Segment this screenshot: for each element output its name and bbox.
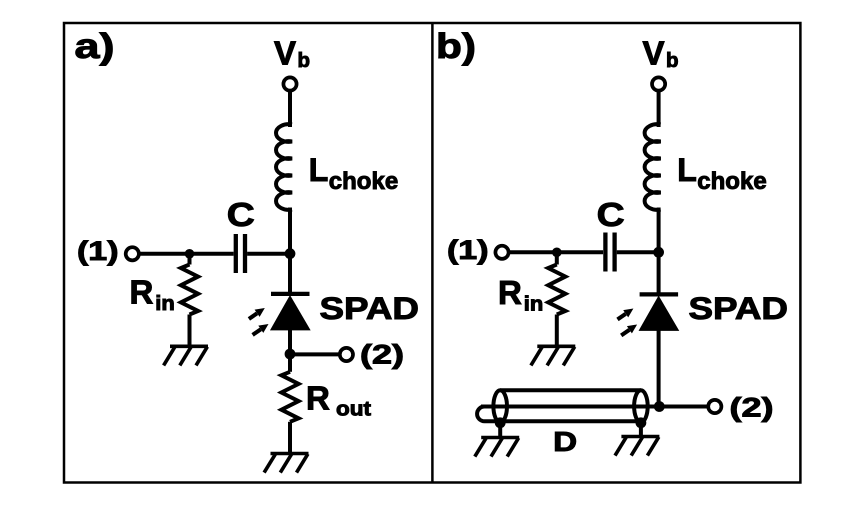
panel divider <box>431 23 434 483</box>
wire inductor to node A (b) <box>657 208 661 253</box>
svg-text:b): b) <box>436 27 476 66</box>
junction dot right shield/ground (b) <box>636 417 647 428</box>
delay line D center conductor (b) <box>481 405 708 409</box>
wire node A to SPAD (a) <box>288 254 292 296</box>
svg-text:C: C <box>227 197 255 234</box>
terminal Vb (a) <box>283 77 296 90</box>
svg-text:L: L <box>677 152 697 188</box>
delay line D left pigtail (b) <box>477 407 641 422</box>
junction dot (1)/R_in (b) <box>552 248 562 258</box>
wire resistor to ground (a) <box>188 315 192 347</box>
resistor R_out (a) <box>281 372 298 422</box>
terminal (1) (a) <box>126 247 139 260</box>
wire (1) to capacitor (a) <box>139 252 234 256</box>
wire junction to resistor (b) <box>555 252 559 264</box>
inductor L_choke (b) <box>645 124 661 210</box>
ground delay line right (b) <box>615 437 659 456</box>
outer frame <box>64 23 800 483</box>
photon arrow 1 (b) <box>618 309 634 320</box>
wire R_out to ground (a) <box>288 422 292 454</box>
wire (1) to capacitor (b) <box>509 250 603 254</box>
ground R_out (a) <box>264 454 308 473</box>
svg-text:SPAD: SPAD <box>689 290 789 326</box>
wire node 2 to terminal (2) (a) <box>290 352 340 356</box>
wire inductor to node A (a) <box>288 208 292 254</box>
photodiode SPAD (a) triangle <box>271 296 310 330</box>
photodiode SPAD (b) cathode bar <box>640 292 679 296</box>
svg-text:D: D <box>553 426 577 457</box>
svg-text:in: in <box>155 293 175 315</box>
wire node A to SPAD (b) <box>657 252 661 296</box>
wire capacitor to node A (a) <box>247 252 290 256</box>
svg-text:choke: choke <box>329 168 398 195</box>
svg-text:L: L <box>309 152 329 188</box>
wire Vb to inductor (b) <box>657 91 661 127</box>
svg-text:C: C <box>597 197 625 234</box>
svg-text:(1): (1) <box>77 236 119 266</box>
wire Vb to inductor (a) <box>288 91 292 127</box>
svg-text:R: R <box>306 380 330 417</box>
svg-text:b: b <box>666 49 679 72</box>
wire SPAD to node 2 (a) <box>288 330 292 354</box>
capacitor C (b) <box>605 233 614 272</box>
svg-text:out: out <box>336 398 371 421</box>
svg-text:SPAD: SPAD <box>320 290 420 326</box>
node A junction dot (a) <box>285 248 296 259</box>
node A junction dot (b) <box>653 247 664 258</box>
svg-text:in: in <box>524 294 544 316</box>
junction dot node 2 (b) <box>654 401 665 412</box>
svg-text:b: b <box>298 49 311 72</box>
junction dot (1)/R_in (a) <box>185 249 195 259</box>
resistor R_in (b) <box>548 265 565 315</box>
svg-text:V: V <box>274 35 296 72</box>
terminal Vb (b) <box>652 77 665 90</box>
photon arrow 2 (a) <box>253 324 269 335</box>
svg-text:R: R <box>130 274 154 311</box>
inductor L_choke (a) <box>276 124 292 210</box>
wire SPAD to delay line node (b) <box>657 330 661 406</box>
wire node 2 to R_out (a) <box>288 354 292 372</box>
ground R_in (b) <box>531 346 575 365</box>
photodiode SPAD (b) triangle <box>639 297 678 331</box>
photon arrow 1 (a) <box>249 308 265 319</box>
ground delay line left (b) <box>475 438 519 457</box>
svg-text:V: V <box>643 35 665 72</box>
delay line D left ellipse (b) <box>493 390 507 422</box>
junction dot left shield/ground (b) <box>495 417 506 428</box>
terminal (2) (a) <box>340 348 353 361</box>
svg-text:(2): (2) <box>730 392 774 422</box>
svg-text:(2): (2) <box>360 340 404 370</box>
terminal (2) (b) <box>708 400 721 413</box>
terminal (1) (b) <box>495 246 508 259</box>
delay line D right ellipse (b) <box>634 390 648 422</box>
svg-text:(1): (1) <box>447 235 489 265</box>
wire capacitor to node A (b) <box>617 250 659 254</box>
wire right shield to ground (b) <box>639 423 643 437</box>
wire resistor to ground (b) <box>555 315 559 347</box>
delay line D top shield line (b) <box>500 388 641 392</box>
photodiode SPAD (a) cathode bar <box>271 292 310 296</box>
photon arrow 2 (b) <box>621 325 637 336</box>
wire left shield to ground (b) <box>498 423 502 438</box>
capacitor C (a) <box>236 234 245 273</box>
resistor R_in (a) <box>181 265 198 315</box>
svg-text:R: R <box>498 274 522 311</box>
junction dot node 2 (a) <box>285 349 296 360</box>
svg-text:choke: choke <box>697 168 766 195</box>
wire junction to resistor (a) <box>188 254 192 265</box>
svg-text:a): a) <box>75 27 115 66</box>
ground R_in (a) <box>164 346 208 365</box>
